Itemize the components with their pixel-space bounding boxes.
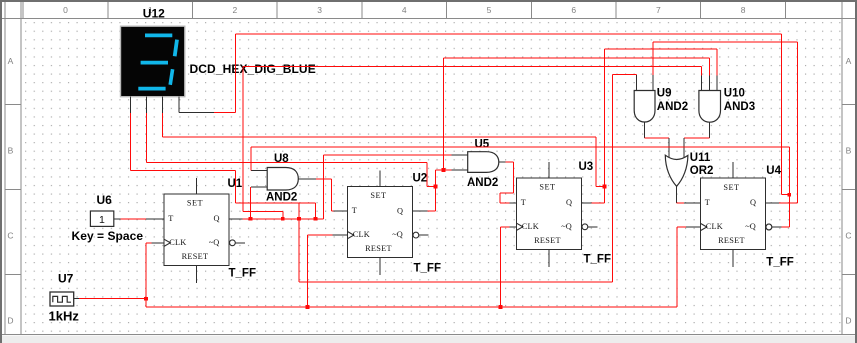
label U11 — [690, 152, 711, 164]
svg-text:OR2: OR2 — [690, 165, 714, 177]
svg-text:D: D — [845, 316, 851, 326]
key switch U6 — [90, 211, 120, 226]
label AND2 of U9 — [657, 101, 688, 113]
svg-text:A: A — [8, 56, 14, 66]
svg-text:A: A — [846, 56, 852, 66]
wire U5 output to U3.T — [500, 162, 514, 203]
wire U4.Q node Q3 — [779, 42, 797, 203]
wire clock bottom bus — [146, 306, 677, 308]
svg-text:AND2: AND2 — [467, 177, 498, 189]
svg-text:6: 6 — [571, 5, 576, 15]
junction Q0 at U8.B — [249, 217, 253, 221]
svg-text:D: D — [7, 316, 13, 326]
label DCD_HEX_DIG_BLUE — [190, 62, 316, 76]
label U1 — [228, 178, 243, 190]
U2 Q pin stub — [413, 210, 428, 212]
svg-text:0: 0 — [63, 5, 68, 15]
U1 CLK pin stub — [152, 242, 164, 244]
svg-text:2: 2 — [233, 5, 238, 15]
label 1kHz — [49, 308, 80, 323]
wire Q0 branch to U8 input B — [249, 187, 251, 219]
wire clock branch to U3.CLK — [501, 227, 510, 307]
svg-text:~Q: ~Q — [392, 230, 402, 239]
wire Q1 to U5 input B — [444, 169, 452, 171]
wire notQ3 riser to U4 notQ — [782, 147, 790, 227]
and-gate U10 (vertical, 3-input) — [684, 75, 720, 158]
wire Q0 branch west riser — [243, 67, 283, 219]
wire display pin4 to node notQ3 — [214, 34, 790, 195]
label U7 — [58, 272, 74, 286]
svg-text:T: T — [521, 198, 526, 207]
junction Q2 at display wire — [603, 185, 607, 189]
wire U2.Q node Q1 riser — [428, 170, 444, 211]
svg-text:T_FF: T_FF — [766, 257, 793, 269]
svg-text:U5: U5 — [475, 139, 490, 151]
U2 CLK pin stub — [333, 234, 348, 236]
label U12 — [143, 7, 165, 21]
junction Q0 west riser — [281, 217, 285, 221]
svg-text:AND3: AND3 — [724, 101, 755, 113]
wire U8 output to U2.T — [316, 179, 333, 211]
wire U7 clock output — [79, 298, 146, 300]
label Key = Space — [72, 229, 144, 243]
wire clock branch to U2.CLK — [307, 235, 332, 307]
svg-text:~Q: ~Q — [561, 222, 571, 231]
U1 Q pin stub — [229, 218, 243, 220]
label U5 — [475, 139, 490, 151]
and-gate U9 (vertical) — [634, 75, 669, 158]
svg-text:RESET: RESET — [718, 236, 745, 245]
svg-text:U8: U8 — [274, 153, 289, 165]
svg-text:AND2: AND2 — [657, 101, 688, 113]
U4 CLK pin stub — [686, 226, 701, 228]
clock source U7 — [50, 292, 79, 306]
label U10 — [724, 87, 745, 99]
junction Q1 at U5.B — [442, 168, 446, 172]
wire node notQ3 bus to U8 input A — [251, 147, 789, 171]
svg-text:T_FF: T_FF — [584, 254, 611, 266]
svg-text:1kHz: 1kHz — [49, 308, 80, 323]
svg-text:8: 8 — [741, 5, 746, 15]
label T_FF of U1 — [229, 268, 256, 280]
svg-text:5: 5 — [487, 5, 492, 15]
and-gate U8 — [251, 168, 316, 191]
svg-text:DCD_HEX_DIG_BLUE: DCD_HEX_DIG_BLUE — [190, 62, 316, 76]
wire U11 output to U4.T — [677, 202, 685, 204]
wire U6 to U1.T — [120, 218, 146, 220]
label U3 — [579, 161, 594, 173]
wire Q0 to U5 input A — [324, 155, 452, 219]
U4 T pin stub — [684, 202, 700, 204]
flip-flop U2 — [348, 170, 429, 275]
junction Q0 display branch — [314, 217, 318, 221]
wire Q3 to U9 input B — [653, 42, 798, 75]
U3 T pin stub — [510, 202, 517, 204]
svg-text:7: 7 — [656, 5, 661, 15]
wire Q2 to U10 input C — [605, 49, 718, 75]
svg-text:T_FF: T_FF — [414, 263, 441, 275]
svg-text:Q: Q — [750, 198, 756, 207]
U3 Q pin stub — [582, 202, 592, 204]
wire clock branch to U4.CLK — [677, 227, 686, 307]
svg-text:C: C — [7, 231, 13, 241]
U4 Q pin stub — [766, 202, 782, 204]
svg-text:T_FF: T_FF — [229, 268, 256, 280]
svg-text:SET: SET — [187, 199, 203, 208]
wire display pin3 to node Q2 — [162, 113, 604, 187]
wire display pin1 to node Q0 — [131, 113, 316, 219]
svg-text:CLK: CLK — [522, 222, 539, 231]
svg-text:1: 1 — [99, 214, 105, 226]
label AND2 of U8 — [266, 192, 297, 204]
svg-text:Q: Q — [397, 206, 403, 215]
svg-text:SET: SET — [370, 191, 386, 200]
svg-text:U7: U7 — [58, 272, 74, 286]
svg-text:T: T — [352, 206, 357, 215]
svg-text:U12: U12 — [143, 7, 165, 21]
and-gate U5 — [451, 152, 505, 173]
svg-text:U9: U9 — [657, 87, 672, 99]
svg-text:B: B — [846, 146, 852, 156]
flip-flop U1 — [164, 178, 245, 283]
wire node Q0 bus from U1.Q — [243, 218, 324, 220]
svg-text:Q: Q — [214, 214, 220, 223]
seven-segment display U12 showing digit 3 — [121, 26, 185, 97]
junction clock at U1 riser — [144, 297, 148, 301]
label T_FF of U3 — [584, 254, 611, 266]
U4 notQ pin stub — [766, 224, 782, 230]
svg-text:~Q: ~Q — [209, 238, 219, 247]
label AND2 of U5 — [467, 177, 498, 189]
flip-flop U3 — [517, 162, 598, 267]
svg-text:CLK: CLK — [706, 222, 723, 231]
label U9 — [657, 87, 672, 99]
svg-text:4: 4 — [402, 5, 407, 15]
svg-text:Q: Q — [566, 198, 572, 207]
label U2 — [413, 173, 428, 185]
junction notQ3 at display wire — [787, 193, 791, 197]
U1 T pin stub — [146, 218, 164, 220]
svg-text:Key = Space: Key = Space — [72, 229, 144, 243]
svg-text:U4: U4 — [766, 165, 781, 177]
label OR2 of U11 — [690, 165, 714, 177]
svg-text:RESET: RESET — [182, 252, 209, 261]
svg-text:T: T — [168, 214, 173, 223]
wire Q0 to U9 input A — [613, 73, 637, 76]
flip-flop U4 — [701, 162, 782, 267]
wire display pin2 to node Q1 — [147, 113, 436, 187]
svg-text:AND2: AND2 — [266, 192, 297, 204]
wire Q0 to U10 input A — [243, 67, 702, 76]
wire Q0 branch south — [299, 74, 613, 282]
svg-text:U3: U3 — [579, 161, 594, 173]
svg-text:~Q: ~Q — [745, 222, 755, 231]
svg-text:RESET: RESET — [534, 236, 561, 245]
svg-text:U11: U11 — [690, 152, 711, 164]
svg-text:C: C — [845, 231, 851, 241]
display U12 pin stubs — [131, 97, 214, 113]
label T_FF of U4 — [766, 257, 793, 269]
svg-text:U6: U6 — [97, 193, 113, 207]
svg-text:CLK: CLK — [353, 230, 370, 239]
label T_FF of U2 — [414, 263, 441, 275]
svg-text:RESET: RESET — [365, 244, 392, 253]
svg-text:CLK: CLK — [169, 238, 186, 247]
svg-text:U10: U10 — [724, 87, 745, 99]
label U8 — [274, 153, 289, 165]
junction clock at U3 riser — [499, 305, 503, 309]
wire U3.Q node Q2 riser — [591, 49, 604, 203]
svg-text:SET: SET — [539, 183, 555, 192]
junction Q1 at display wire — [434, 185, 438, 189]
label AND3 of U10 — [724, 101, 755, 113]
svg-text:T: T — [705, 198, 710, 207]
U3 CLK pin stub — [510, 226, 517, 228]
U2 T pin stub — [333, 210, 348, 212]
wire Q1 to U10 input B — [444, 58, 710, 170]
svg-text:U2: U2 — [413, 173, 428, 185]
svg-text:3: 3 — [317, 5, 322, 15]
junction clock at U2 riser — [306, 305, 310, 309]
label U6 — [97, 193, 113, 207]
or-gate U11 (vertical) — [665, 155, 688, 203]
junction Q0 south branch — [297, 217, 301, 221]
svg-text:SET: SET — [723, 183, 739, 192]
wire clock riser to U1.CLK — [146, 243, 152, 307]
svg-text:B: B — [8, 146, 14, 156]
label U4 — [766, 165, 781, 177]
